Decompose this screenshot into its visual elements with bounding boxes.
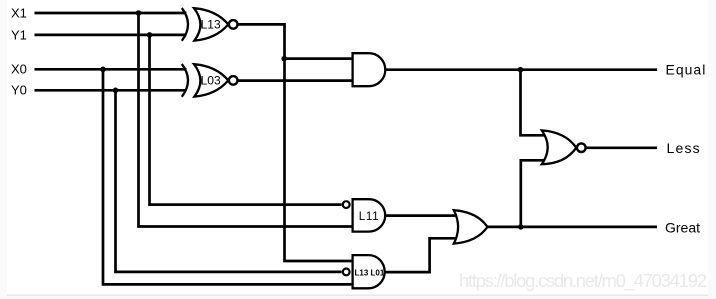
svg-text:Equal: Equal	[666, 62, 707, 78]
svg-text:https://blog.csdn.net/m0_47034: https://blog.csdn.net/m0_47034192	[459, 270, 707, 292]
inverted input bubble L01	[343, 269, 350, 276]
wire OR output Great line	[488, 226, 658, 229]
wire L03 output to Equal AND bottom input	[238, 79, 352, 82]
wire input Y1	[35, 34, 187, 37]
wire Equal output line	[385, 68, 657, 71]
AND gate L01	[353, 255, 385, 288]
bottom page border line	[7, 294, 708, 296]
junction node on Great line	[518, 224, 524, 230]
junction node on X1 line	[136, 10, 142, 16]
wire input X0	[35, 68, 187, 71]
junction node on Equal line	[518, 67, 524, 73]
XNOR gate L03	[182, 64, 238, 97]
NOR gate U-less	[542, 130, 586, 164]
wire L01 output up to OR bottom input	[385, 238, 458, 272]
svg-text:L13 L01: L13 L01	[355, 268, 385, 277]
wire Y1 tap down to L11 inverted input	[150, 35, 342, 205]
wire input Y0	[35, 89, 187, 92]
wire input X1	[35, 12, 187, 15]
wire L11 output to OR top input	[384, 214, 457, 217]
wire Great node up to NOR bottom input	[521, 160, 547, 227]
svg-text:Y0: Y0	[11, 83, 27, 98]
wire Equal node down to NOR top input	[521, 70, 548, 136]
svg-text:X1: X1	[11, 5, 27, 20]
wire NOR output Less line	[586, 146, 657, 149]
XNOR gate L13	[182, 8, 238, 41]
junction node on Y0 line	[113, 88, 119, 94]
wire Y0 tap down to L01 inverted input	[116, 90, 342, 272]
wire X0 tap down to L01 bottom input	[103, 69, 353, 284]
svg-text:X0: X0	[11, 62, 27, 77]
wire stub to Equal AND top input	[285, 57, 353, 60]
svg-text:L13: L13	[201, 18, 221, 32]
AND gate L11	[353, 199, 386, 231]
inverted input bubble L11	[343, 201, 350, 208]
svg-text:Great: Great	[665, 219, 700, 235]
AND gate U-equal	[353, 53, 386, 86]
svg-text:Less: Less	[667, 140, 701, 156]
junction node on L13 output vertical	[281, 56, 287, 62]
junction node on Y1 line	[147, 32, 153, 38]
wire L13 output to vertical	[238, 24, 352, 261]
svg-text:Y1: Y1	[11, 27, 27, 42]
svg-text:L11: L11	[359, 211, 380, 223]
junction node on X0 line	[100, 67, 106, 73]
svg-text:L03: L03	[201, 74, 221, 88]
OR gate U-great	[454, 210, 488, 243]
wire X1 tap down to L11 bottom input	[139, 13, 353, 227]
